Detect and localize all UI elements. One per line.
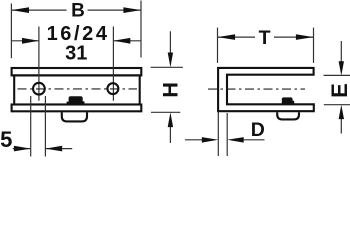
dimension E top extension line	[324, 74, 350, 76]
dimension E bottom arrow	[340, 119, 342, 134]
dimension T arrowheads	[218, 34, 236, 40]
dimension B arrowheads	[11, 7, 29, 13]
svg-text:D: D	[251, 119, 265, 141]
side profile (C shape)	[218, 68, 314, 111]
left hole	[33, 83, 45, 95]
dimension B extension line right	[140, 1, 142, 58]
clip (side, dark)	[282, 97, 294, 103]
dimension D extension line left	[217, 112, 219, 156]
dimension T extension line left	[217, 28, 219, 63]
clip (front, dark)	[69, 96, 85, 104]
dimension T extension line right	[313, 28, 315, 63]
dimension T line	[218, 36, 314, 38]
dimension 5 arrows	[13, 148, 30, 150]
dimension D extension line right	[226, 113, 228, 156]
dimension 16/24 line right with arrow	[113, 40, 141, 42]
slot width reference lines (5 dim)	[30, 96, 32, 157]
dimension B extension line left	[10, 4, 12, 59]
svg-text:T: T	[259, 27, 271, 49]
dimension 16/24 line left with arrow	[11, 40, 38, 42]
tab (side, below arm)	[277, 112, 299, 119]
bottom flange	[12, 105, 142, 112]
dimension E top arrow	[340, 41, 342, 62]
svg-text:E: E	[327, 83, 350, 98]
right hole	[107, 83, 118, 94]
hole center extension line left (x=38.9)	[38, 27, 40, 101]
svg-text:B: B	[71, 1, 85, 22]
dimension D right arrow	[243, 139, 265, 141]
hole center extension line right (x=113.4)	[112, 27, 114, 101]
horizontal centerline through holes	[18, 88, 138, 90]
svg-text:31: 31	[65, 42, 87, 64]
body	[14, 75, 140, 104]
side centerline	[208, 88, 305, 90]
tab (front, below flange)	[62, 112, 87, 121]
svg-text:H: H	[159, 82, 183, 98]
dimension B line	[11, 9, 141, 11]
dimension H bottom extension line	[151, 111, 180, 113]
dimension H top extension line	[151, 66, 183, 68]
dimension H bottom arrow	[169, 126, 171, 143]
top flange	[12, 68, 142, 75]
dimension H top arrow	[169, 31, 171, 53]
dimension D left arrow	[185, 139, 202, 141]
dimension E bottom extension line	[324, 104, 350, 106]
svg-text:5: 5	[0, 127, 12, 152]
